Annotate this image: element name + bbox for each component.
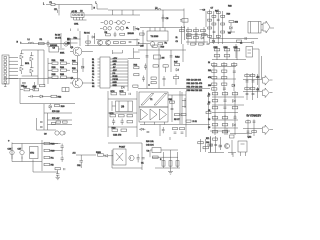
resistor R66b <box>212 88 217 90</box>
speaker plug P4 <box>263 88 273 98</box>
SECTION: standby regulation (C4) <box>208 87 273 137</box>
svg-text:CN1: CN1 <box>74 24 79 26</box>
resistor R21 <box>208 12 212 14</box>
diode D20 <box>219 145 221 147</box>
wire <box>140 9 184 29</box>
svg-text:F+: F+ <box>92 77 94 79</box>
SECTION: primary bulk caps (D1) <box>8 140 65 180</box>
box enclosure <box>4 79 75 104</box>
svg-text:C1: C1 <box>92 65 94 67</box>
wire <box>108 143 142 170</box>
pin 3 wire <box>110 64 128 66</box>
transistor Q7 <box>129 155 134 160</box>
capacitor C34 <box>214 144 217 145</box>
resistor R80 <box>112 127 118 131</box>
capacitor C11 <box>21 83 26 88</box>
wire verticals <box>164 150 178 168</box>
resistor R85a <box>173 128 178 130</box>
wire <box>208 140 236 155</box>
pin 6 wire <box>110 73 128 75</box>
svg-text:C9: C9 <box>53 48 55 50</box>
inductor L2 <box>155 8 161 11</box>
svg-text:R98: R98 <box>51 144 56 146</box>
capacitor C15b <box>163 76 166 86</box>
svg-text:CX: CX <box>54 9 57 11</box>
svg-text:GND: GND <box>113 82 118 84</box>
connector CN1 <box>71 10 84 17</box>
wire <box>233 152 246 157</box>
svg-text:C2: C2 <box>80 11 83 13</box>
diode D18 <box>233 124 236 127</box>
label col <box>206 138 209 144</box>
capacitor C4 <box>114 32 117 37</box>
resistor R94 <box>212 124 218 126</box>
svg-text:PSON: PSON <box>113 79 119 81</box>
svg-text:B1: B1 <box>92 59 94 61</box>
transistor Q3 <box>71 47 82 56</box>
svg-text:4k7: 4k7 <box>228 33 232 35</box>
inductor L5 <box>100 27 111 31</box>
resistor R91 <box>250 88 255 90</box>
svg-text:SL: SL <box>126 28 129 30</box>
svg-text:R2k2: R2k2 <box>175 57 181 59</box>
svg-text:+12: +12 <box>256 77 260 79</box>
wire right pair <box>182 26 185 44</box>
pin label column <box>92 59 94 88</box>
resistor R99 <box>44 149 55 152</box>
resistor R29 <box>221 31 225 33</box>
diode D1 <box>64 42 68 46</box>
resistor R90 <box>245 88 250 90</box>
svg-text:R99: R99 <box>51 151 56 153</box>
svg-text:5VSB: 5VSB <box>113 76 119 78</box>
svg-text:104: 104 <box>208 85 211 87</box>
junction dot <box>148 84 150 86</box>
svg-text:C44: C44 <box>206 142 209 144</box>
resistor R13 <box>187 37 192 39</box>
resistor R31 <box>52 60 59 64</box>
diode D4b <box>212 40 214 42</box>
rail right of text block <box>182 92 209 130</box>
capacitor Co1 <box>246 81 249 82</box>
resistor R63 <box>212 77 217 79</box>
wire <box>155 168 180 172</box>
svg-text:C30: C30 <box>140 46 145 48</box>
capacitor CX1 <box>54 9 59 15</box>
svg-text:C5: C5 <box>208 110 210 112</box>
svg-text:C5: C5 <box>166 18 170 20</box>
SECTION: power transistors + driver IC (B2) <box>70 47 140 91</box>
wire <box>210 10 223 45</box>
wire <box>20 43 70 45</box>
wire <box>150 150 178 157</box>
svg-text:R1k: R1k <box>58 97 62 99</box>
transistor Q11 <box>225 144 230 149</box>
wire <box>134 39 140 46</box>
capacitor C19 <box>129 93 130 95</box>
resistor R60 <box>232 64 237 66</box>
wire <box>50 144 63 156</box>
wire <box>70 29 81 44</box>
resistor R109 vertical <box>176 161 179 167</box>
inductor L3 <box>101 21 117 25</box>
output group 2 rails <box>243 87 262 101</box>
capacitor C36 <box>137 154 140 162</box>
svg-text:RA: RA <box>51 157 55 160</box>
resistor R72 <box>52 122 56 124</box>
capacitor C23 <box>162 127 165 133</box>
resistor R59 <box>222 64 227 66</box>
svg-text:R69: R69 <box>61 106 66 108</box>
wire <box>22 50 44 85</box>
wire <box>48 58 70 84</box>
transistor Q4 <box>71 78 83 88</box>
capacitor C24 <box>224 100 227 101</box>
svg-text:AC: AC <box>73 152 76 155</box>
inductor L1 <box>28 42 34 43</box>
capacitor C41a <box>207 96 210 97</box>
SECTION: PWM surroundings (B3) <box>138 44 211 130</box>
resistor R22 <box>216 12 220 14</box>
capacitor Co3 <box>246 93 249 94</box>
resistor R38 <box>72 61 77 65</box>
resistor R108 vertical <box>169 161 172 167</box>
svg-text:U8: U8 <box>147 151 150 153</box>
svg-text:R: R <box>160 159 162 161</box>
svg-text:R3: R3 <box>208 119 210 121</box>
diode D22 <box>104 155 114 158</box>
svg-text:U4: U4 <box>121 106 125 109</box>
small box Cs <box>62 88 69 92</box>
resistor R85b <box>180 128 185 130</box>
resistor R14 <box>194 37 199 39</box>
svg-text:GND: GND <box>113 61 118 63</box>
wire <box>200 10 207 27</box>
inductor L6 <box>116 27 124 31</box>
box U3 <box>240 43 253 58</box>
resistor R10b <box>180 30 185 32</box>
diode D3 <box>201 37 204 40</box>
thermistor TH1 <box>67 38 69 40</box>
output group 1 rails <box>243 73 262 87</box>
svg-text:R1: R1 <box>208 94 210 96</box>
label rows right <box>55 35 61 40</box>
resistor R36 <box>60 74 67 78</box>
svg-text:C22 473: C22 473 <box>113 135 122 137</box>
resistor R76 <box>110 113 116 117</box>
svg-text:Cp: Cp <box>137 29 141 31</box>
resistor R29c <box>216 35 220 37</box>
pin 4 wire <box>110 67 128 69</box>
wire vertical rails <box>44 104 48 130</box>
varistor ZNR <box>67 42 69 44</box>
resistor R57 <box>224 55 230 57</box>
label rows <box>146 141 154 147</box>
resistor R15 <box>191 43 196 45</box>
pin 10 wire <box>110 85 128 87</box>
node N <box>94 8 96 10</box>
SECTION: feedback block (C2) <box>108 91 137 137</box>
svg-text:G1: G1 <box>92 83 94 85</box>
ground <box>56 175 61 180</box>
resistor R86 <box>212 93 218 95</box>
svg-text:GND: GND <box>113 85 118 87</box>
wire <box>61 33 71 48</box>
pin 9 wire <box>110 82 128 84</box>
svg-text:T2: T2 <box>150 99 153 101</box>
wire <box>70 52 93 84</box>
resistor R27 <box>221 23 225 25</box>
resistor R6 <box>114 42 119 44</box>
wire cluster left (B4 lower) <box>212 62 236 91</box>
resistor R69 <box>55 105 66 109</box>
capacitor Cp <box>134 26 141 31</box>
capacitor C35 <box>64 168 65 170</box>
resistor R12 <box>201 30 206 32</box>
capacitor C15 <box>233 71 236 72</box>
wire <box>20 90 51 97</box>
diode D6 <box>20 62 24 74</box>
svg-text:PC817: PC817 <box>119 147 126 149</box>
resistor R58 <box>212 64 217 66</box>
capacitor C13 <box>144 64 147 70</box>
resistor R82 <box>169 99 175 103</box>
capacitor C4b <box>129 41 132 42</box>
capacitor Co4 <box>252 93 255 94</box>
capacitor C16 <box>28 95 35 98</box>
svg-text:C31: C31 <box>77 165 82 167</box>
resistor R10 <box>187 30 192 32</box>
wire <box>227 23 235 32</box>
svg-text:1N4148: 1N4148 <box>128 33 134 35</box>
svg-text:C2: C2 <box>92 74 94 76</box>
resistor R46 <box>163 65 168 72</box>
resistor R101 <box>44 163 54 166</box>
svg-text:BD1: BD1 <box>25 63 30 65</box>
wire <box>186 27 208 45</box>
SECTION: EMI filter / line block <box>67 2 140 45</box>
SECTION: top right regulator strip (A4) <box>208 6 274 45</box>
capacitor C13a <box>146 56 149 57</box>
pin 8 wire <box>110 79 128 81</box>
transistor Q2 <box>106 40 111 45</box>
capacitor C23a <box>171 109 174 110</box>
diode D5 <box>20 50 24 62</box>
capacitor C24a <box>174 132 177 133</box>
svg-text:102: 102 <box>235 22 239 24</box>
wire <box>182 98 186 108</box>
transistor Q1 <box>98 40 103 45</box>
capacitor CX2 <box>17 42 22 44</box>
wire <box>46 5 92 11</box>
resistor R9 <box>158 43 167 45</box>
svg-text:1k: 1k <box>240 43 242 45</box>
svg-text:L: L <box>43 3 45 6</box>
svg-text:R50 1k C20 104: R50 1k C20 104 <box>187 80 202 82</box>
wire <box>80 31 140 46</box>
label col2 <box>176 37 178 43</box>
svg-text:E1: E1 <box>92 62 94 64</box>
capacitor C38 <box>209 144 212 145</box>
resistor R11 <box>194 30 199 32</box>
SECTION: startup / drive small parts (A2 bottom) <box>80 31 140 46</box>
svg-text:C8 471: C8 471 <box>55 38 61 40</box>
svg-text:NTC: NTC <box>30 153 34 155</box>
capacitor C28 <box>61 144 64 150</box>
resistor R74 <box>111 91 117 95</box>
resistor R93 <box>222 117 228 119</box>
svg-text:C42 104: C42 104 <box>146 145 154 147</box>
capacitor C3 <box>47 41 50 47</box>
connector J1 <box>2 55 9 84</box>
capacitor C14a <box>170 56 173 57</box>
resistor R4 <box>86 41 91 43</box>
wire vertical pair to outputs <box>259 56 262 91</box>
wire <box>76 154 96 156</box>
SECTION: opto feedback (D2) <box>73 143 145 170</box>
resistor R102 <box>55 168 60 170</box>
resistor R33 <box>52 67 59 71</box>
resistor R67 <box>24 87 30 91</box>
resistor R89 <box>212 100 218 102</box>
box BX1 <box>30 147 39 159</box>
resistor R81 <box>121 129 127 131</box>
wire <box>112 101 116 111</box>
resistor R8 <box>140 33 145 35</box>
output plug P1 <box>263 21 270 33</box>
resistor R68 <box>33 87 39 91</box>
resistor R44 <box>133 85 138 87</box>
wire <box>261 25 274 31</box>
svg-text:F-: F- <box>92 80 94 82</box>
resistor R28 <box>208 27 212 29</box>
resistor R48a <box>151 77 156 79</box>
capacitor C27 electrolytic <box>18 147 25 159</box>
resistor R29b <box>208 35 212 37</box>
svg-text:R53 56k C23 222: R53 56k C23 222 <box>187 90 203 92</box>
capacitor C6b <box>207 43 210 44</box>
resistor R92 <box>212 117 218 119</box>
capacitor C20 <box>112 119 115 125</box>
wire frame <box>108 91 137 137</box>
wire <box>212 46 246 60</box>
resistor R49t <box>152 45 165 49</box>
capacitor C9 <box>245 37 246 40</box>
svg-text:115/230: 115/230 <box>50 45 58 47</box>
wire <box>212 111 238 117</box>
capacitor C40s <box>247 131 250 132</box>
resistor R90s <box>246 121 251 123</box>
svg-text:R4 10: R4 10 <box>55 35 60 37</box>
wire top right <box>170 137 211 152</box>
transformer T5 primary box <box>139 92 168 107</box>
SECTION: snubber box bottom-left (C1) <box>4 79 75 136</box>
diode D17 <box>233 100 236 103</box>
svg-text:R1: R1 <box>40 39 43 41</box>
diode D4 <box>230 27 233 30</box>
svg-text:C6: C6 <box>208 127 210 129</box>
resistor R65 <box>212 83 217 85</box>
output plug P3 <box>263 125 274 135</box>
resistor R14b <box>187 34 192 36</box>
svg-text:G2: G2 <box>92 86 94 88</box>
transistor Q5 <box>55 131 59 135</box>
svg-text:R71 4k7: R71 4k7 <box>52 118 60 120</box>
diode D12 <box>40 95 43 98</box>
resistor R100 <box>44 156 54 159</box>
wire <box>140 43 150 45</box>
svg-text:B2: B2 <box>92 68 94 70</box>
SECTION: main transformer and rectifiers (C3) <box>139 91 210 137</box>
wire rails <box>211 136 221 153</box>
standby output rails <box>243 120 262 137</box>
capacitor C24b <box>181 132 184 133</box>
resistor R37 <box>40 85 45 87</box>
resistor R110 <box>198 142 203 144</box>
capacitor C30 <box>56 174 59 175</box>
diode D7 <box>30 52 34 64</box>
switch box SW <box>49 45 65 55</box>
wire <box>74 17 87 20</box>
resistor R48b <box>151 82 156 84</box>
capacitor C8b <box>213 31 216 32</box>
resistor R111 <box>203 147 208 149</box>
pin 7 wire <box>110 76 128 78</box>
capacitor C12 <box>33 82 36 91</box>
diode D8 <box>30 64 34 76</box>
wire bottom bus <box>210 39 258 43</box>
capacitor C29 <box>61 156 64 162</box>
capacitor C24c <box>223 107 226 108</box>
ic U2 connector block <box>98 57 111 88</box>
label column strip <box>208 62 211 87</box>
svg-text:R51 2k2 C21 473: R51 2k2 C21 473 <box>187 83 203 85</box>
transistor Q13 <box>150 42 155 47</box>
cluster lower left <box>212 115 238 135</box>
diode D21 <box>122 86 125 89</box>
capacitor C25 <box>234 117 237 118</box>
resistor R96 <box>212 131 218 133</box>
resistor Ro2 <box>250 75 255 77</box>
wire <box>33 160 58 174</box>
speaker plug P2 <box>263 76 273 86</box>
svg-text:1k: 1k <box>176 37 178 39</box>
resistor Ro1 <box>245 75 250 77</box>
resistor R79 <box>127 121 133 123</box>
resistor R34 <box>60 67 67 71</box>
resistor R89c <box>232 107 238 109</box>
resistor RS <box>51 95 61 98</box>
wire <box>236 44 259 58</box>
resistor R95 <box>222 124 228 126</box>
wire <box>58 5 60 10</box>
wire top <box>210 128 252 135</box>
pin 1 wire <box>110 58 128 60</box>
resistor R64 <box>222 77 227 79</box>
resistor R87 <box>222 93 228 95</box>
resistor R98 <box>44 142 55 145</box>
svg-text:R71: R71 <box>206 138 209 140</box>
svg-text:C6: C6 <box>203 10 206 12</box>
resistor R42 <box>134 65 140 69</box>
resistor R1 <box>39 42 45 44</box>
ground <box>168 172 173 175</box>
box U8 <box>147 148 162 153</box>
resistor R103 <box>96 152 104 156</box>
resistor R14c <box>202 34 207 36</box>
pin 2 wire <box>110 61 128 63</box>
resistor R71b <box>63 121 68 123</box>
